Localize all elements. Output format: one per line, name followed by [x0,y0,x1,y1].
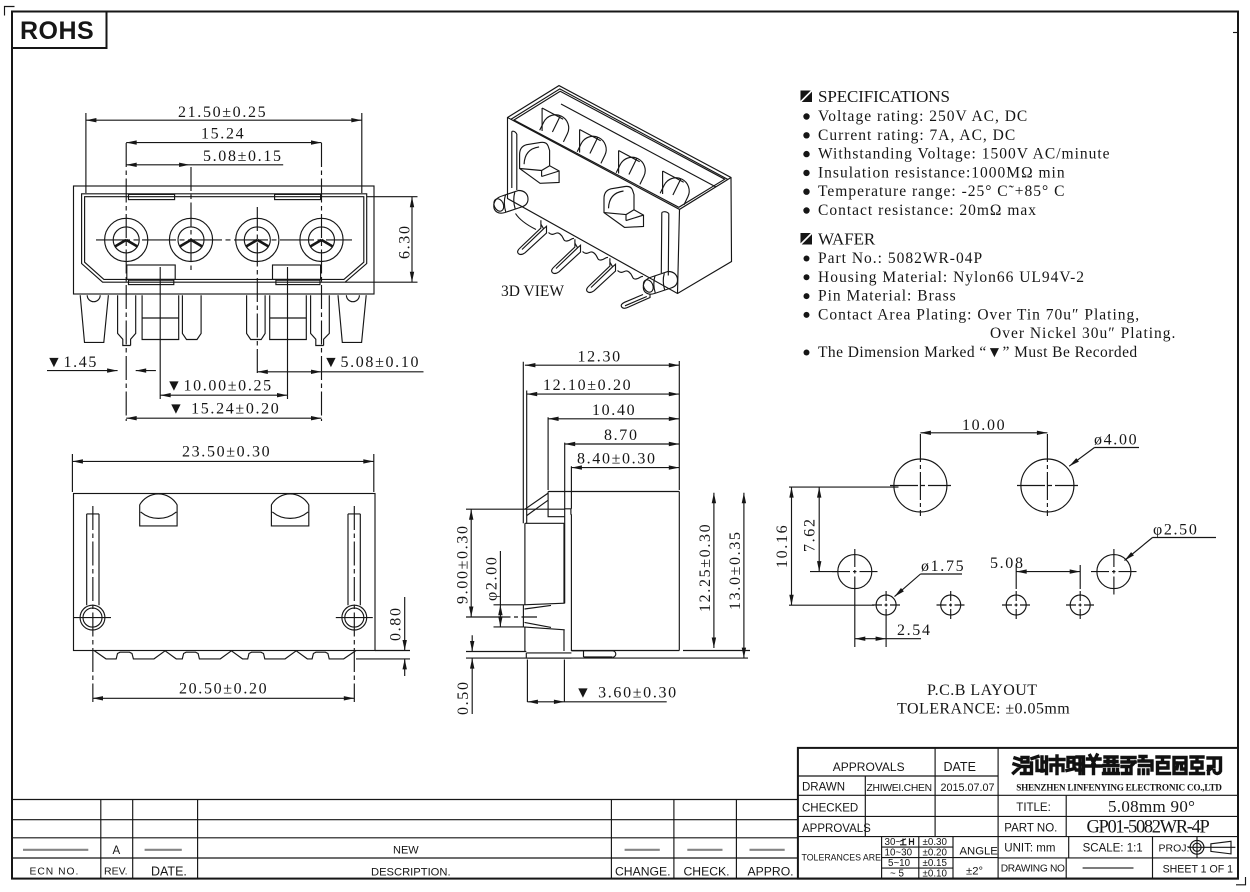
3d leg 1 [518,220,547,254]
bottom notch left [129,280,174,284]
body right edge [678,492,680,651]
pcb dim 10.16 [791,487,793,605]
svg-text:Housing Material: Nylon66 UL94: Housing Material: Nylon66 UL94V-2 [818,269,1085,286]
pcb hole C1 (phi1.75) [876,595,896,615]
svg-text:GP01-5082WR-4P: GP01-5082WR-4P [1087,818,1210,838]
wafer bullet 1 [804,256,810,262]
svg-text:DATE.: DATE. [151,865,187,879]
svg-text:▼ 15.24±0.20: ▼ 15.24±0.20 [168,401,280,418]
dim 0.50 [471,635,473,714]
title block row lines left [798,776,1238,858]
svg-text:Contact Area Plating: Over Tin: Contact Area Plating: Over Tin 70u″ Plat… [818,306,1140,323]
pin A (circle1) [118,295,136,345]
centerline circle1 vertical [125,143,127,421]
3d front wall slot [512,131,517,190]
3d clip block 2 [604,186,644,227]
svg-text:23.50±0.30: 23.50±0.30 [182,444,271,461]
revision table columns [101,800,737,879]
svg-text:12.10±0.20: 12.10±0.20 [543,377,632,394]
front view inner octagon inner line [85,197,364,280]
bottom view body rect [74,494,376,651]
3d dome 4 [660,173,693,205]
fake CJK yi-shang small [900,838,914,845]
wafer bullet 5 [804,350,810,356]
pcb dim 5.08 [1016,565,1080,589]
svg-text:APPROVALS: APPROVALS [833,760,905,774]
specifications header square [801,91,813,103]
dim 0.80 [356,597,410,676]
contact circle 1 outer [105,218,148,261]
3d left peg [494,191,528,214]
bottom pocket right [273,265,321,279]
solder leg right [571,651,615,657]
svg-text:ANGLE: ANGLE [960,846,999,858]
contact circle 1 spokes [115,240,138,247]
dim 5.08 line [126,164,283,166]
dim 9.00 [466,509,565,617]
3d clip block 1 [520,142,560,183]
wafer header square [801,233,813,245]
svg-text:REV.: REV. [104,866,128,878]
fold tick right border [1233,32,1238,34]
3d box outer outline [508,86,732,294]
lower wall left line [525,523,564,652]
proj symbol cone [1211,841,1231,854]
3d clip block 2 details [604,191,644,221]
3d leg 4 [621,295,650,309]
svg-text:DESCRIPTION.: DESCRIPTION. [371,866,451,878]
svg-text:±0.30: ±0.30 [923,837,948,848]
section wall outer line [522,362,524,524]
centerline circle4 vertical [321,143,323,421]
ROHS logo box [12,12,107,49]
svg-text:30~: 30~ [885,837,902,848]
svg-text:20.50±0.20: 20.50±0.20 [179,681,268,698]
body top [548,491,679,493]
svg-text:5.08: 5.08 [990,555,1025,572]
rev dash change [625,849,660,851]
svg-text:10.00: 10.00 [962,417,1006,434]
latch vertical [548,492,564,517]
svg-text:Voltage rating: 250V AC, DC: Voltage rating: 250V AC, DC [818,108,1028,125]
svg-text:21.50±0.25: 21.50±0.25 [178,104,267,121]
spec bullet 3 [803,151,809,157]
right eyelet centerline [336,617,373,619]
wide tab right [270,295,307,339]
step lines [565,509,572,514]
svg-text:NEW: NEW [393,845,419,857]
svg-text:The Dimension Marked “▼” Must: The Dimension Marked “▼” Must Be Recorde… [818,344,1138,361]
svg-text:5.08mm 90°: 5.08mm 90° [1108,797,1195,816]
pcb hole A1 (phi4) [894,459,947,512]
right eyelet inner [345,608,364,627]
svg-text:10.16: 10.16 [774,524,791,568]
pcb hole B2 (phi2.5) [1097,555,1131,589]
left eyelet inner [83,608,102,627]
proj symbol circles [1190,840,1204,854]
3d right peg [643,272,677,295]
svg-text:A: A [113,845,121,857]
svg-text:6.30: 6.30 [397,224,414,259]
svg-text:0.80: 0.80 [388,606,405,641]
wide tab left [142,295,179,339]
title block outer [798,748,1238,879]
3d dome 1 [540,110,573,142]
wafer bullet 2 [804,274,810,280]
svg-text:DRAWN: DRAWN [802,782,845,794]
svg-text:Pin Material: Brass: Pin Material: Brass [818,288,957,305]
centerline circle2 vertical [190,167,192,272]
svg-text:ECN NO.: ECN NO. [30,866,80,877]
front view inner octagon outer line [82,194,367,282]
funnel taper lines [525,605,552,627]
svg-text:5.08±0.15: 5.08±0.15 [203,148,283,165]
left peg arc notch [87,295,100,302]
svg-text:±2°: ±2° [966,866,983,878]
svg-text:▼ 3.60±0.30: ▼ 3.60±0.30 [575,685,678,702]
svg-text:SCALE: 1:1: SCALE: 1:1 [1083,843,1143,855]
svg-text:CHECKED: CHECKED [802,803,858,815]
svg-text:15.24: 15.24 [201,126,245,143]
dim 12.10 [527,393,680,395]
3d leg 2 [552,239,581,273]
section wall bottom [525,522,564,524]
corner mark top-left [5,7,15,16]
latch diagonal 1 [525,493,548,509]
svg-text:13.0±0.35: 13.0±0.35 [727,530,744,610]
svg-text:DRAWING NO.: DRAWING NO. [1001,863,1067,874]
right mounting peg [338,295,366,342]
pcb dim 7.62 [818,487,820,571]
contact circle 3 spokes [246,240,269,247]
wafer bullet 3 [804,293,810,299]
dim 21.50 line [86,113,362,193]
title right column lines [1066,795,1152,878]
pcb label phi1.75 [895,574,963,597]
contact circle 4 spokes [310,240,333,247]
latch diagonal 2 [527,500,548,515]
rev row dash date [145,849,182,851]
svg-text:10~30: 10~30 [885,847,913,858]
left slot centerline [92,506,94,702]
svg-text:Over Nickel 30u″ Plating.: Over Nickel 30u″ Plating. [990,325,1176,342]
svg-text:ZHIWEI.CHEN: ZHIWEI.CHEN [867,783,932,794]
ext 8.40 and body left edge [570,466,572,651]
company CJK name (drawn pseudo-glyphs) [1014,755,1221,774]
contact circle 4 inner [309,227,335,253]
dim 8.70 [565,443,680,445]
3d right peg tip [641,278,655,293]
revision table outline [11,800,798,879]
pcb label phi4.00 [1069,448,1139,467]
pcb hole C4 [1070,595,1090,615]
left slot [87,514,99,605]
left mounting peg [80,295,108,342]
contact circle 2 outer [169,218,212,261]
dim 15.24 line [126,142,321,144]
right slot [348,514,360,605]
dim 6.30 [345,197,417,283]
spec bullet 2 [803,132,809,138]
tab B (circle2) [182,295,201,339]
cavity wall vertical [564,443,566,604]
bottom pocket left [127,265,175,279]
right eyelet outer [342,605,367,630]
3d box top front edge [508,118,732,294]
contact circle 1 inner [113,227,139,253]
wafer bullet 4 [804,312,810,318]
right peg arc notch [346,295,359,302]
svg-text:2015.07.07: 2015.07.07 [941,782,995,794]
title block column lines [865,748,998,879]
rev row dash ecn [23,849,88,851]
3d squiggle 3 [618,271,644,280]
svg-text:SHEET 1 OF 1: SHEET 1 OF 1 [1163,864,1234,876]
dim 13.0 [683,493,750,658]
rev dash check [687,849,722,851]
svg-text:Contact resistance: 20mΩ max: Contact resistance: 20mΩ max [818,202,1037,219]
dim 12.25 [713,493,715,648]
svg-text:φ2.00: φ2.00 [484,556,501,601]
ext line wide tab left center [159,267,161,399]
sawtooth bottom edge [94,651,356,659]
contact circle 2 inner [178,227,204,253]
svg-text:±0.15: ±0.15 [923,858,948,869]
left eyelet centerline [74,617,111,619]
centerline circle3 vertical [256,207,258,376]
3d left peg ribs [504,192,515,212]
dim 12.30 [525,361,679,490]
svg-text:ROHS: ROHS [20,17,94,45]
pcb dim 2.54 [855,595,921,648]
3d right peg ribs [654,273,665,293]
pcb hole C3 [1006,595,1026,615]
dim 3.60 [527,660,666,703]
svg-text:▼1.45: ▼1.45 [46,354,98,371]
dim 20.50 [93,697,355,699]
svg-text:9.00±0.30: 9.00±0.30 [455,524,472,604]
dome tab right [271,494,308,526]
funnel outline [523,603,564,630]
tolerance subtable lines [882,837,999,879]
3d rim second line [511,89,728,180]
svg-text:2.54: 2.54 [897,622,932,639]
dim 8.40 [571,467,679,469]
3d leg 3 [587,258,616,292]
svg-text:UNIT: mm: UNIT: mm [1004,843,1055,855]
svg-text:Temperature range: -25° C˜+85°: Temperature range: -25° C˜+85° C [818,183,1065,200]
3d dome 2 [577,132,610,164]
svg-text:10.40: 10.40 [592,402,636,419]
contact circle 4 outer [300,218,343,261]
horizontal centerline through circles [96,239,352,241]
dim 23.50 [72,454,373,492]
svg-text:φ2.50: φ2.50 [1153,522,1198,539]
top slot right [275,194,321,199]
3d clip block 1 details [520,147,560,177]
svg-text:12.25±0.30: 12.25±0.30 [697,523,714,612]
rev dash appro [750,849,785,851]
svg-text:Withstanding Voltage: 1500V AC: Withstanding Voltage: 1500V AC/minute [818,146,1111,163]
left eyelet outer [80,605,105,630]
drawing no dash [1083,867,1134,869]
3d squiggle 2 [583,252,609,261]
pcb hole A2 (phi4) [1021,459,1074,512]
svg-text:~ 5: ~ 5 [890,869,904,880]
contact circle 2 spokes [180,240,203,247]
svg-text:PART NO.: PART NO. [1004,822,1057,834]
svg-text:▼10.00±0.25: ▼10.00±0.25 [166,378,273,395]
dim phi2.00 [494,551,524,627]
front view outer body rect [74,186,375,294]
svg-text:ø4.00: ø4.00 [1094,432,1138,449]
corner mark bottom-right [1236,877,1246,885]
svg-text:0.50: 0.50 [455,680,472,715]
svg-text:5~10: 5~10 [888,858,911,869]
body bottom [571,650,679,652]
svg-text:TOLERANCES ARE: TOLERANCES ARE [802,853,882,863]
dim 1.45 [47,370,156,372]
3d leader peg to pin [516,214,537,230]
svg-text:P.C.B LAYOUT: P.C.B LAYOUT [927,682,1038,699]
svg-text:Part No.: 5082WR-04P: Part No.: 5082WR-04P [818,250,983,267]
dim 5.08b line [257,371,423,373]
svg-text:3D VIEW: 3D VIEW [501,283,564,300]
3d dome 3 [616,153,649,185]
dim 15.24b line [126,417,321,419]
spec bullet 4 [803,170,809,176]
spec bullet 6 [803,207,809,213]
funnel centerline [493,616,538,618]
svg-text:TITLE:: TITLE: [1016,802,1051,814]
svg-text:12.30: 12.30 [578,348,622,365]
3d squiggle 1 [549,233,575,242]
3d right face slot [661,212,669,276]
pcb hole C2 [941,595,961,615]
spec bullet 5 [803,189,809,195]
foot tab [526,653,571,658]
svg-text:APPROVALS: APPROVALS [802,823,871,835]
svg-text:DATE: DATE [944,760,976,774]
contact circle 3 outer [236,218,279,261]
svg-text:±0.20: ±0.20 [923,847,948,858]
svg-text:CHECK.: CHECK. [684,865,730,879]
svg-text:CHANGE.: CHANGE. [615,865,671,879]
section wall inner line [526,391,528,524]
pcb hole B1 (phi2.5) [838,555,872,589]
svg-text:PROJ:: PROJ: [1159,842,1190,854]
top slot left [129,194,175,199]
svg-text:Insulation resistance:1000MΩ m: Insulation resistance:1000MΩ min [818,164,1066,181]
pcb label phi2.50 [1125,538,1217,561]
svg-text:Current rating: 7A, AC, DC: Current rating: 7A, AC, DC [818,127,1016,144]
right slot centerline [353,506,355,702]
svg-text:▼5.08±0.10: ▼5.08±0.10 [323,354,420,371]
dim 10.00 line [160,394,287,396]
dim 10.40 [548,417,679,490]
svg-text:8.70: 8.70 [604,427,639,444]
pcb line [466,652,748,659]
svg-text:APPRO.: APPRO. [748,865,794,879]
3d left peg tip [492,197,506,212]
dome tab left [140,494,177,526]
svg-text:SPECIFICATIONS: SPECIFICATIONS [818,87,950,106]
pcb ext top [789,486,899,488]
svg-text:7.62: 7.62 [802,517,819,552]
pcb dim 10.00 [920,432,1047,434]
ext line wide tab right center [287,267,289,399]
3d cavity back wall base [561,104,716,187]
3d rim inner quad [514,91,725,207]
svg-text:SHENZHEN LINFENYING ELECTRONIC: SHENZHEN LINFENYING ELECTRONIC CO.,LTD [1016,783,1222,793]
svg-text:WAFER: WAFER [818,230,876,249]
svg-text:ø1.75: ø1.75 [921,558,965,575]
3d back wall notches [542,108,563,131]
contact circle 3 inner [244,227,270,253]
bottom notch right [276,280,320,284]
svg-text:TOLERANCE: ±0.05mm: TOLERANCE: ±0.05mm [897,701,1070,718]
pcb ext 10.16 bottom [789,604,874,606]
svg-text:8.40±0.30: 8.40±0.30 [577,451,657,468]
pin D (circle4) [311,295,330,345]
pcb ext 7.62 bottom [810,571,837,573]
svg-text:±0.10: ±0.10 [923,869,948,880]
spec bullet 1 [803,113,809,119]
tab C (circle3) [247,295,266,339]
